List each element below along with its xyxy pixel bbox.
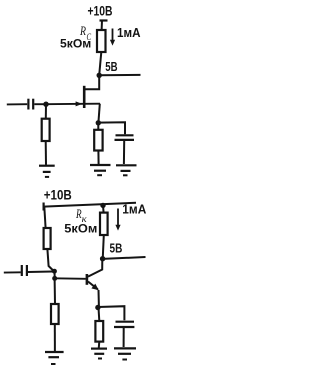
wire input (bottom) <box>4 271 21 273</box>
power terminal tick (top circuit) <box>100 19 108 21</box>
ground under Ce (bottom) <box>114 347 136 349</box>
wire drain lead <box>85 75 99 89</box>
resistor Rk 5kOhm body <box>100 213 108 235</box>
capacitor Cin plates (top) <box>27 99 29 110</box>
ground under R2 (bottom left) <box>45 351 64 353</box>
wire Ce to ground <box>123 328 125 347</box>
power terminal tick (bottom circuit) <box>42 203 44 211</box>
resistor Rg body (top gate resistor) <box>42 119 50 141</box>
wire input node to base node <box>54 271 56 278</box>
wire Rk to collector node <box>103 235 104 258</box>
junction gate node <box>43 102 48 107</box>
junction collector node 5V <box>100 256 105 261</box>
resistor R1 body (upper bias) <box>44 228 51 249</box>
svg-text:+10В: +10В <box>44 187 72 202</box>
ground under Cs (top) <box>116 164 137 166</box>
junction drain node 5V <box>97 73 102 78</box>
ground under Rg (top) <box>39 165 55 167</box>
wire Re to ground <box>98 342 101 348</box>
svg-text:5В: 5В <box>105 60 117 74</box>
wire supply to Rc <box>101 21 103 31</box>
svg-text:5В: 5В <box>110 241 123 255</box>
wire Cin to input node <box>28 271 53 274</box>
svg-text:5кОм: 5кОм <box>60 37 91 51</box>
wire emitter lead with arrow <box>88 282 98 290</box>
wire emitter node to Re <box>98 308 101 322</box>
wire R2 to ground <box>54 324 56 351</box>
wire source lead <box>85 103 100 105</box>
transistor T1 JFET channel bar <box>83 86 86 108</box>
current arrow 1mA (bottom) <box>117 209 119 226</box>
resistor R2 body (lower bias) <box>51 304 59 324</box>
wire supply rail (bottom) <box>44 203 136 207</box>
transistor T2 BJT base bar <box>86 274 89 285</box>
junction base node <box>52 276 57 281</box>
wire emitter node to bypass cap <box>98 306 125 320</box>
junction input node <box>52 269 57 274</box>
wire input (top) <box>7 103 27 105</box>
wire output (top) <box>99 74 140 76</box>
wire source node to Rs <box>97 123 99 130</box>
resistor Re body (emitter resistor) <box>95 321 103 342</box>
current arrow 1mA (top) <box>112 29 114 41</box>
capacitor Cs plates (top bypass) <box>116 134 134 136</box>
ground under Rs (top) <box>90 164 111 166</box>
wire base node to R2 <box>54 278 56 304</box>
wire rail to R1 <box>44 207 45 229</box>
svg-text:5кОм: 5кОм <box>64 222 97 236</box>
wire collector lead <box>88 259 102 277</box>
wire Rs to ground <box>97 151 99 165</box>
ground under Re (bottom) <box>91 348 107 350</box>
wire R1 to base node <box>47 249 53 271</box>
wire base lead <box>55 277 86 280</box>
wire Cin to gate node <box>34 103 46 105</box>
svg-text:1мА: 1мА <box>122 203 146 217</box>
junction source node (top) <box>96 120 101 125</box>
junction emitter node <box>95 305 100 310</box>
resistor Rc 5kOhm body <box>97 30 106 52</box>
wire gate node to Rg <box>45 104 47 119</box>
capacitor Cin plates (bottom) <box>21 265 23 276</box>
wire output (bottom) <box>103 257 146 259</box>
svg-text:1мА: 1мА <box>117 25 141 40</box>
wire rail node to Rk <box>102 205 105 212</box>
wire source node to bypass cap <box>98 122 125 134</box>
resistor Rs body (top source resistor) <box>94 130 102 151</box>
wire Rc to drain node <box>99 52 101 74</box>
capacitor Ce plates (bottom bypass) <box>116 321 135 323</box>
junction rail node <box>100 203 105 208</box>
wire Rg to ground <box>45 141 47 165</box>
svg-text:+10В: +10В <box>88 3 113 18</box>
wire Cs to ground <box>123 141 125 164</box>
wire gate lead with arrow <box>46 103 83 105</box>
